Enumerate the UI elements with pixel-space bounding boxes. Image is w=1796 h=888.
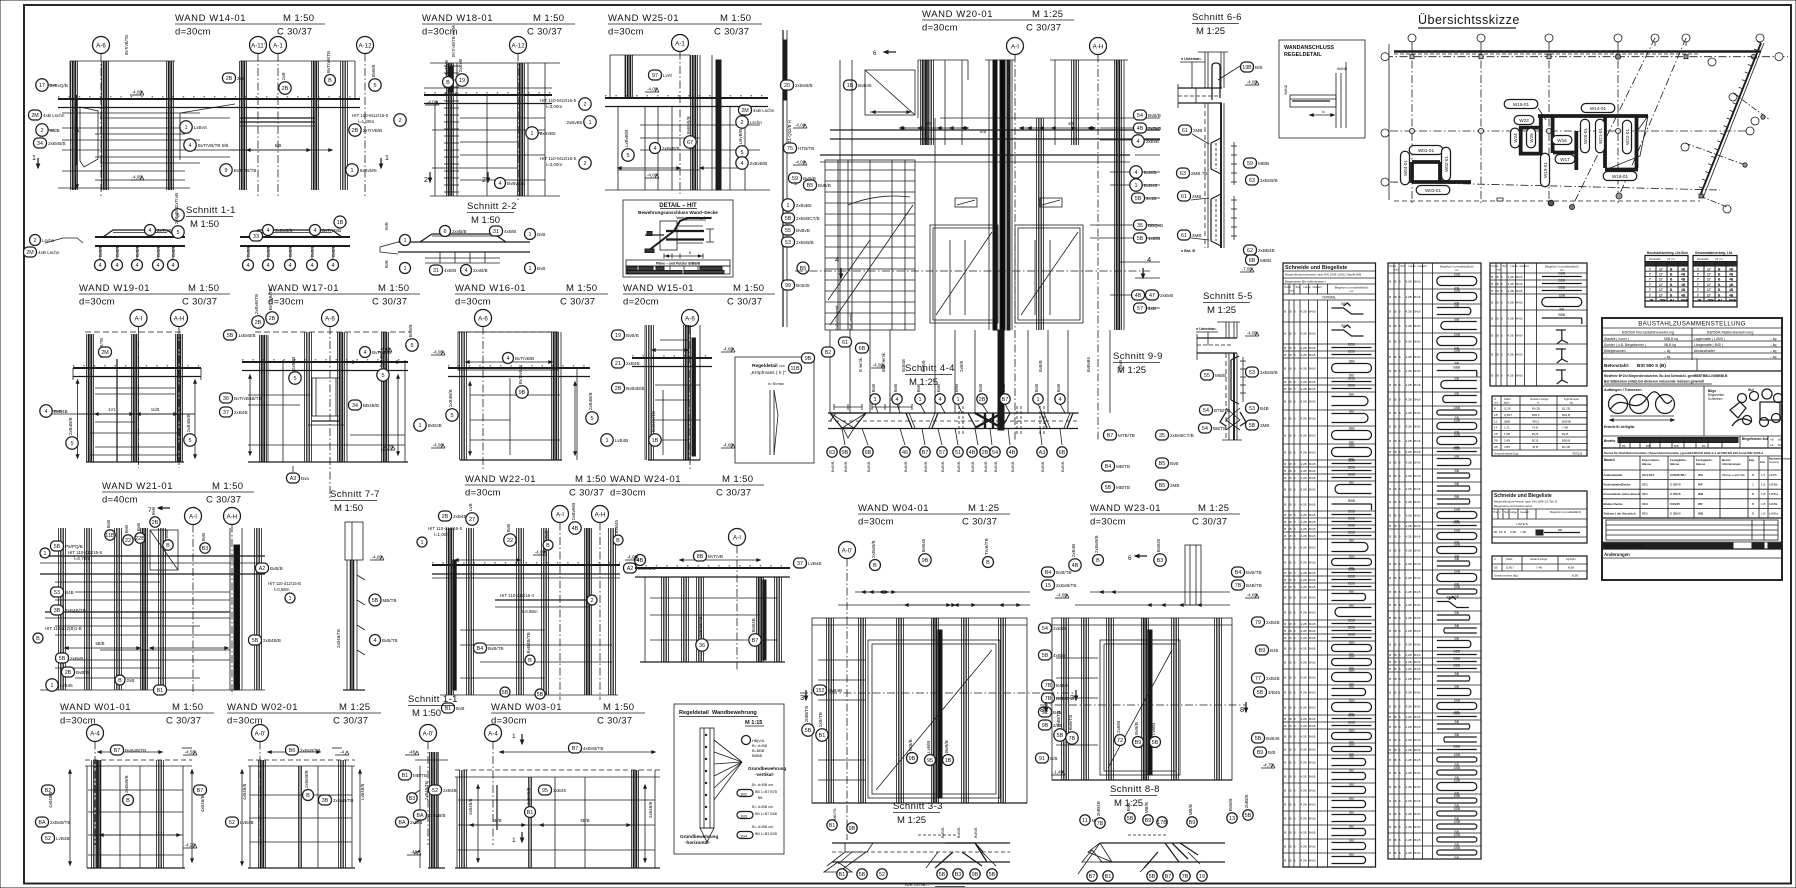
svg-text:7,4B: 7,4B [1536,566,1542,570]
svg-text:Aufbiegen / Traversen: Aufbiegen / Traversen [1604,388,1642,392]
svg-text:Betonstahl:: Betonstahl: [1604,363,1630,368]
svg-text:B: B [1284,691,1286,695]
svg-text:B: B [1389,369,1391,373]
svg-text:4,2B: 4,2B [1301,561,1307,565]
svg-text:·: · [1548,36,1549,41]
svg-text:2M: 2M [26,250,33,256]
svg-text:B: B [1501,301,1503,305]
svg-text:MB/B: MB/B [1260,258,1271,263]
svg-text:BBBB: BBBB [752,754,763,758]
svg-text:B: B [1389,340,1391,344]
svg-text:C 30/37: C 30/37 [1026,23,1061,34]
svg-text:l=0,5Bm: l=0,5Bm [274,587,290,592]
svg-text:B: B [1294,476,1296,480]
svg-text:B: B [1389,487,1391,491]
svg-text:4,2B: 4,2B [1301,859,1307,863]
svg-text:BB: BB [1560,308,1565,312]
svg-text:57: 57 [1137,306,1143,312]
svg-text:4,2B: 4,2B [1406,474,1412,478]
svg-text:4B: 4B [1009,450,1016,456]
svg-text:Länge: Länge [1409,264,1417,268]
svg-text:B: B [1399,653,1401,657]
svg-text:2B: 2B [152,520,159,526]
svg-text:B4,B: B4,B [1309,629,1316,633]
svg-text:31: 31 [493,229,499,235]
svg-text:B= d=BB cm: B= d=BB cm [752,825,773,829]
svg-text:53: 53 [1249,406,1255,412]
svg-text:2: 2 [590,598,593,604]
svg-text:BvB45: BvB45 [858,83,872,88]
svg-text:17: 17 [1659,283,1663,287]
svg-text:Biegeform (unmaßstäblich): Biegeform (unmaßstäblich) [1335,286,1369,290]
svg-text:BvTrvB/TB: BvTrvB/TB [268,288,273,310]
svg-text:B: B [1294,585,1296,589]
svg-text:77: 77 [1255,676,1261,682]
svg-text:1B: 1B [1495,301,1499,305]
svg-text:1B: 1B [1393,340,1397,344]
svg-text:LvB4B: LvB4B [615,438,629,443]
svg-text:B: B [1752,502,1754,506]
svg-text:W23: W23 [1519,118,1529,123]
svg-text:1: 1 [786,203,789,209]
svg-text:15: 15 [1045,583,1051,589]
svg-text:1B: 1B [1393,474,1397,478]
svg-text:Wasser-undurchlä: Wasser-undurchlä [1722,473,1745,477]
W15 bubbles [612,330,625,340]
svg-text:B6: B6 [289,748,296,754]
svg-text:WAND W23-01: WAND W23-01 [1090,503,1161,514]
svg-text:B4,B: B4,B [1414,851,1421,855]
svg-text:BA: BA [38,820,46,826]
svg-text:B,5B: B,5B [1572,574,1578,578]
svg-text:B4,B: B4,B [1309,622,1316,626]
svg-text:BBB: BBB [1348,517,1356,521]
svg-text:·: · [1480,36,1481,41]
Schnitt 6-6 bubbles [1241,62,1254,72]
svg-text:BvB/B: BvB/B [1134,722,1139,735]
svg-text:B: B [1294,534,1296,538]
svg-text:W15-01: W15-01 [1513,102,1530,107]
svg-text:7: 7 [1649,283,1651,287]
svg-text:1BB: 1BB [1454,779,1461,783]
svg-text:17: 17 [1707,283,1711,287]
svg-text:4: 4 [266,228,269,234]
svg-text:BvBvB5: BvBvB5 [1086,356,1091,372]
svg-text:W25: W25 [1529,133,1534,143]
svg-text:22: 22 [507,538,513,544]
W20 main vertical rebars [839,60,841,330]
svg-text:B4,B: B4,B [1309,735,1316,739]
svg-text:5B: 5B [1127,816,1134,822]
svg-text:BSt 500 S (B): BSt 500 S (B) [1637,363,1666,368]
svg-text:B: B [1491,289,1493,293]
svg-text:B4,B: B4,B [1414,643,1421,647]
svg-text:2xBB4B: 2xBB4B [1258,248,1275,253]
svg-text:1B: 1B [1393,691,1397,695]
svg-text:2xB: 2xB [237,76,245,81]
svg-text:1B: 1B [1393,851,1397,855]
svg-text:1B: 1B [1393,667,1397,671]
svg-text:4,2B: 4,2B [1406,450,1412,454]
svg-text:B: B [36,636,40,642]
svg-text:B: B [1284,629,1286,633]
svg-text:B: B [1389,514,1391,518]
svg-text:B: B [1399,324,1401,328]
svg-text:BvB/B: BvB/B [941,827,945,838]
W04 top dim lines [855,591,1030,593]
svg-text:4,2B: 4,2B [1406,838,1412,842]
svg-text:1B: 1B [1393,825,1397,829]
svg-text:B3: B3 [955,872,962,878]
svg-text:B4,B: B4,B [1414,383,1421,387]
svg-text:4B: 4B [637,558,644,564]
svg-text:4xB4B/B: 4xB4B/B [468,798,473,815]
svg-text:BvB: BvB [978,384,983,392]
svg-text:– kg: – kg [1770,337,1777,341]
svg-text:4: 4 [148,228,151,234]
svg-text:1BB: 1BB [1454,699,1461,703]
svg-text:d=30cm: d=30cm [79,297,115,308]
svg-text:B1,2B: B1,2B [1562,407,1570,411]
svg-text:4,2B: 4,2B [1301,831,1307,835]
svg-text:Gesamt: Gesamt [1313,285,1322,289]
svg-text:5: 5 [293,376,296,382]
svg-text:4,2B: 4,2B [1301,817,1307,821]
svg-text:2B: 2B [269,316,276,322]
svg-text:1B: 1B [1288,469,1292,473]
svg-text:4B: 4B [969,450,976,456]
svg-text:1B: 1B [652,438,659,444]
svg-text:B4,2B: B4,2B [1562,445,1570,449]
svg-text:2xB4B/TB: 2xB4B/TB [698,617,703,638]
svg-text:B4,B: B4,B [1516,275,1523,279]
svg-text:± Bst. B: ± Bst. B [1181,249,1195,253]
svg-text:± Unterkan.: ± Unterkan. [1181,57,1202,61]
svg-text:4,2B: 4,2B [1406,825,1412,829]
svg-text:4,2B: 4,2B [1406,576,1412,580]
svg-text:B: B [616,538,620,544]
svg-text:7: 7 [1649,278,1651,282]
svg-text:BB L=B3 B2B: BB L=B3 B2B [755,832,778,836]
svg-text:B: B [1284,748,1286,752]
svg-text:d=20cm: d=20cm [623,297,659,308]
svg-text:BB4B/B: BB4B/B [363,403,379,408]
svg-text:BBB: BBB [1453,712,1461,716]
svg-text:Schnitt 9-9: Schnitt 9-9 [1113,351,1163,362]
svg-text:A-6: A-6 [96,42,106,49]
svg-text:Schneide und Biegeliste: Schneide und Biegeliste [1285,265,1347,271]
W03 bubbles [429,785,442,795]
svg-text:1B: 1B [1288,353,1292,357]
svg-text:36: 36 [699,643,705,649]
svg-text:BvB4B/TB: BvB4B/TB [125,748,146,753]
svg-text:B4,B: B4,B [1309,400,1316,404]
svg-text:B: B [528,658,532,664]
svg-text:B1: B1 [527,810,534,816]
svg-text:– kg: – kg [1770,355,1777,359]
svg-text:A-11': A-11' [251,42,265,49]
svg-text:B4,B: B4,B [1414,425,1421,429]
svg-text:Grundbewehrung: Grundbewehrung [680,834,718,839]
svg-text:BBB: BBB [1558,286,1566,290]
svg-text:4,2B: 4,2B [1406,514,1412,518]
svg-text:Rostfreie B+Zn/ Biegerollendur: Rostfreie B+Zn/ Biegerollendurchm. B= 4x… [1604,374,1728,378]
svg-text:BBB: BBB [1348,619,1356,623]
svg-text:BB: BB [1558,528,1562,532]
svg-text:Preise für Stahlbetonbauteile: Preise für Stahlbetonbauteile | Spannbet… [1604,451,1763,455]
svg-text:Beton: Beton [1722,458,1731,462]
svg-text:2B: 2B [282,86,289,92]
svg-text:7: 7 [1649,288,1651,292]
svg-text:B: B [1284,310,1286,314]
svg-text:B4,B: B4,B [1414,514,1421,518]
svg-text:1B: 1B [1288,647,1292,651]
svg-text:BvBvB: BvBvB [796,228,810,233]
svg-text:5B: 5B [989,872,996,878]
svg-text:B: B [1284,469,1286,473]
svg-text:4,2B: 4,2B [1406,785,1412,789]
svg-text:-4: -4 [340,750,344,755]
svg-text:BB: BB [1349,811,1354,815]
svg-text:1BB: 1BB [1454,406,1461,410]
svg-text:5B/B: 5B/B [492,818,501,823]
svg-text:B4,B: B4,B [1309,367,1316,371]
svg-text:2: 2 [40,128,43,134]
svg-text:B: B [1294,622,1296,626]
svg-text:1BB: 1BB [1454,529,1461,533]
svg-text:B3: B3 [1157,558,1164,564]
svg-text:l=3,00m: l=3,00m [546,104,562,109]
axis bubble A-I W24 [729,529,746,546]
svg-text:99: 99 [785,283,791,289]
svg-text:B4,B: B4,B [1414,487,1421,491]
svg-text:XC1: XC1 [1642,483,1648,487]
svg-text:C 30/37: C 30/37 [333,716,368,727]
svg-text:BB: BB [1455,637,1460,641]
svg-text:1B: 1B [1393,590,1397,594]
svg-text:74,B: 74,B [1532,426,1538,430]
svg-text:B: B [118,678,122,684]
svg-text:B9: B9 [1259,648,1266,654]
svg-text:B: B [1399,280,1401,284]
svg-text:1B: 1B [1288,676,1292,680]
svg-text:5: 5 [590,416,593,422]
svg-text:2xB4B/B: 2xB4B/B [263,638,281,643]
svg-text:1BB: 1BB [1454,508,1461,512]
BAUSTAHL title block [1602,318,1782,580]
svg-text:9B: 9B [842,450,849,456]
svg-text:BBB: BBB [1453,745,1461,749]
svg-text:B: B [1399,705,1401,709]
svg-text:BvB: BvB [954,384,959,392]
svg-text:4: 4 [363,350,366,356]
svg-text:1: 1 [385,155,389,162]
svg-text:5: 5 [740,150,743,156]
svg-text:Gesamtstahlverbrtg. Lfd.: Gesamtstahlverbrtg. Lfd. [1695,251,1733,255]
svg-text:BB: BB [1455,304,1460,308]
svg-text:W18-01: W18-01 [1612,174,1629,179]
svg-text:1BB: 1BB [1348,444,1355,448]
svg-text:4,2B: 4,2B [1301,845,1307,849]
svg-text:1B: 1B [1288,332,1292,336]
svg-text:B: B [1389,738,1391,742]
svg-text:B: B [1389,280,1391,284]
svg-text:Biegerollendurchmesser nach DI: Biegerollendurchmesser nach DIN 1045-1/2… [1494,500,1557,504]
svg-text:4B: 4B [1681,288,1686,292]
svg-text:2xBvB/B: 2xBvB/B [796,240,814,245]
svg-text:B: B [1501,374,1503,378]
svg-text:35: 35 [1159,433,1165,439]
svg-text:1B: 1B [1288,691,1292,695]
svg-text:4,2B: 4,2B [1406,715,1412,719]
svg-text:Q,B17: Q,B17 [1506,566,1514,570]
svg-text:WAND W16-01: WAND W16-01 [455,283,526,294]
svg-text:2B: 2B [442,514,449,520]
svg-text:B: B [1284,845,1286,849]
svg-text:BB: BB [1455,482,1460,486]
svg-text:BvB/B: BvB/B [288,245,293,257]
svg-text:1: 1 [418,423,421,429]
svg-text:Schnitt 7-7: Schnitt 7-7 [330,489,380,500]
axis bubble A-1 [270,37,287,54]
svg-text:B: B [1389,295,1391,299]
svg-text:LvB: LvB [468,503,473,511]
svg-text:7: 7 [1697,288,1699,292]
svg-text:l=0,5Bm: l=0,5Bm [522,609,538,614]
svg-text:34: 34 [37,141,43,147]
svg-text:A-H: A-H [174,315,185,322]
svg-text:B4,B: B4,B [1414,474,1421,478]
svg-text:2xB4B: 2xB4B [443,788,457,793]
svg-text:1B: 1B [1393,398,1397,402]
svg-text:1BB: 1BB [1454,289,1461,293]
svg-text:1B: 1B [1288,629,1292,633]
svg-text:1B: 1B [1288,561,1292,565]
svg-text:B/B/B: B/B/B [908,739,913,751]
svg-text:B4,B: B4,B [1309,817,1316,821]
svg-text:LM/Bä: LM/Bä [1769,483,1778,487]
svg-text:BBB: BBB [1348,568,1356,572]
svg-text:M 1:50: M 1:50 [533,13,564,24]
svg-text:17: 17 [1707,278,1711,282]
svg-text:1BB: 1BB [1454,794,1461,798]
svg-text:21: 21 [615,361,621,367]
svg-text:31: 31 [433,268,439,274]
svg-text:m: m [1537,402,1539,405]
svg-text:A-12: A-12 [511,42,525,49]
svg-text:WAND W24-01: WAND W24-01 [610,474,681,485]
svg-text:B9: B9 [1145,818,1152,824]
svg-text:1BB: 1BB [1348,743,1355,747]
svg-text:2xB4B/B: 2xB4B/B [588,392,593,410]
svg-text:1B: 1B [1393,758,1397,762]
svg-text:4,2B: 4,2B [1406,660,1412,664]
svg-text:NORMAL: NORMAL [1322,296,1336,300]
svg-text:67: 67 [687,140,693,146]
svg-text:B4,B: B4,B [1414,562,1421,566]
svg-text:4,2B: 4,2B [1406,667,1412,671]
svg-text:B: B [1284,735,1286,739]
svg-text:4,2B: 4,2B [1508,374,1514,378]
svg-text:Schnitt 4-4: Schnitt 4-4 [905,363,955,374]
svg-text:1B: 1B [1393,355,1397,359]
svg-text:4,2B: 4,2B [1406,748,1412,752]
svg-text:9B: 9B [849,826,856,832]
svg-text:19: 19 [615,333,621,339]
svg-text:5/B: 5/B [275,143,282,148]
svg-text:W22-01: W22-01 [1625,129,1630,146]
svg-text:B: B [1284,803,1286,807]
svg-text:B: B [1752,473,1754,477]
svg-text:BvB/B: BvB/B [331,245,336,257]
svg-text:1B: 1B [1288,400,1292,404]
svg-text:1: 1 [403,238,406,244]
svg-text:4: 4 [188,143,191,149]
svg-text:M 1:25: M 1:25 [1196,26,1225,37]
svg-text:BvB: BvB [506,524,511,532]
svg-text:2xB45: 2xB45 [1053,626,1066,631]
svg-text:B/B: B/B [1255,65,1262,70]
svg-text:5B: 5B [1137,236,1144,242]
svg-text:B: B [1294,748,1296,752]
svg-text:1B: 1B [945,758,952,764]
svg-text:2xBvB/B: 2xBvB/B [428,813,446,818]
svg-text:B: B [1399,549,1401,553]
svg-text:B4,B: B4,B [1414,576,1421,580]
svg-text:Schnitt 5-5: Schnitt 5-5 [1203,291,1253,302]
svg-text:BvB/TB: BvB/TB [1056,570,1072,575]
svg-text:1B: 1B [1393,799,1397,803]
svg-text:4xB4B/B: 4xB4B/B [242,783,247,800]
svg-text:1: 1 [403,266,406,272]
svg-text:B: B [1294,676,1296,680]
svg-text:2xBvBCT/B: 2xBvBCT/B [1170,433,1194,438]
svg-text:BvB/B: BvB/B [135,245,140,257]
svg-text:B4,B: B4,B [1562,432,1568,436]
svg-text:B: B [1491,334,1493,338]
svg-text:152: 152 [816,688,825,694]
svg-text:27: 27 [469,517,475,523]
svg-text:B4,B: B4,B [1414,295,1421,299]
svg-text:17B: 17B [1157,820,1167,826]
svg-text:4,2B: 4,2B [1301,527,1307,531]
svg-text:B: B [1399,524,1401,528]
svg-text:2xBvB/B: 2xBvB/B [571,503,576,521]
svg-text:2xB4B: 2xB4B [1071,544,1076,558]
svg-text:B4,B: B4,B [1516,289,1523,293]
svg-text:1B: 1B [1393,324,1397,328]
svg-text:B: B [1294,387,1296,391]
svg-text:A-0': A-0' [255,730,266,737]
svg-text:BvB: BvB [537,232,545,237]
W20 left stair grid [825,160,915,330]
svg-text:7,4B: 7,4B [1562,426,1568,430]
svg-text:Innenwände (ohne Besch: Innenwände (ohne Besch [1604,492,1640,496]
svg-text:1B: 1B [1495,275,1499,279]
svg-text:B: B [1284,367,1286,371]
svg-text:B: B [1399,758,1401,762]
svg-text:19B: 19B [1242,65,1252,71]
svg-text:Schnitt 2-2: Schnitt 2-2 [467,201,517,212]
svg-text:4,2B: 4,2B [1406,369,1412,373]
svg-text:45,B: 45,B [1532,445,1538,449]
W04 top bubbles [870,560,881,571]
svg-text:B: B [1294,353,1296,357]
svg-text:1: 1 [350,168,353,174]
svg-text:2xB4B: 2xB4B [453,514,467,519]
svg-text:B7: B7 [922,450,929,456]
svg-text:4: 4 [115,263,118,269]
